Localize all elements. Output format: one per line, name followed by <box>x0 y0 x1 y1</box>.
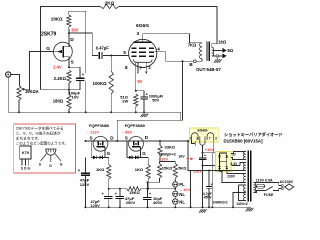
svg-text:1KΩ: 1KΩ <box>96 167 105 172</box>
svg-text:200V: 200V <box>126 200 136 205</box>
wire source-drain rail <box>85 140 160 142</box>
ground PT <box>246 208 249 211</box>
svg-text:1N4003×2: 1N4003×2 <box>213 200 228 204</box>
svg-text:NL: NL <box>179 192 185 197</box>
svg-text:10V: 10V <box>72 95 79 100</box>
svg-text:FQPF3N80: FQPF3N80 <box>125 123 146 128</box>
fuse <box>253 182 278 184</box>
svg-text:2.4KΩ: 2.4KΩ <box>54 76 67 81</box>
svg-text:8Ω: 8Ω <box>227 48 233 53</box>
svg-text:140V×2: 140V×2 <box>236 202 248 206</box>
heater wiring highlight box 6G6G <box>190 128 219 142</box>
wire drain <box>68 33 70 42</box>
capacitor 47uF 125V left <box>84 158 86 173</box>
lamp NL 2 <box>173 199 178 204</box>
svg-text:16Ω: 16Ω <box>218 39 227 44</box>
ground OPT <box>216 57 218 59</box>
resistor 2.4K ohm <box>67 70 71 83</box>
capacitor 10uF 400V <box>147 182 149 197</box>
pot wiper arrow <box>23 88 29 91</box>
svg-text:50V: 50V <box>152 98 159 103</box>
svg-text:2SK79のデータを調べてみる: 2SK79のデータを調べてみる <box>16 125 64 130</box>
tube 6G6G <box>129 39 157 67</box>
svg-text:16V: 16V <box>178 155 185 159</box>
transformer PT winding 5V <box>243 152 245 160</box>
wire gate Q1 <box>104 147 106 158</box>
wire feedback to source junction <box>41 89 69 91</box>
svg-text:←98V: ←98V <box>121 129 132 134</box>
wire decoupling rail <box>85 14 87 73</box>
wire bridge minus to ground <box>211 153 213 208</box>
svg-text:0.47μF: 0.47μF <box>96 45 109 50</box>
annotation TO-92 package K79 <box>20 146 31 159</box>
potentiometer VR 10K-A <box>17 85 21 100</box>
svg-text:2: 2 <box>196 137 198 141</box>
svg-text:125V: 125V <box>80 182 90 187</box>
red arrow to caps <box>186 158 191 160</box>
transformer OPT core <box>206 42 208 62</box>
svg-text:1KΩ: 1KΩ <box>135 167 144 172</box>
resistor 15K horizontal <box>127 187 142 191</box>
bridge rectifier D15XB60 yellow box <box>216 152 232 172</box>
svg-text:15KΩ: 15KΩ <box>129 190 140 195</box>
diodes gate protection Q2 <box>126 141 128 157</box>
speaker tap 0 ohm <box>212 55 223 57</box>
transformer PT winding 6.3V <box>243 163 245 171</box>
wire heater legs <box>192 140 196 144</box>
input jack <box>6 72 11 77</box>
svg-text:20KΩ: 20KΩ <box>51 17 63 22</box>
svg-text:15KΩ: 15KΩ <box>162 165 173 170</box>
svg-text:30V: 30V <box>71 27 79 32</box>
resistor 100K ohm grid <box>110 56 112 72</box>
resistor 33K ohm <box>159 141 161 145</box>
ground amp <box>141 114 144 117</box>
svg-text:+: + <box>204 153 206 157</box>
svg-text:S: S <box>125 135 128 140</box>
svg-text:D: D <box>70 37 74 43</box>
svg-text:9V: 9V <box>137 79 142 84</box>
svg-text:このようなピン配置のようです。: このようなピン配置のようです。 <box>16 140 68 145</box>
wire bottom ground bus <box>85 206 250 208</box>
svg-text:+10V: +10V <box>205 148 214 152</box>
svg-text:AC100V: AC100V <box>280 180 294 184</box>
svg-text:5KΩ: 5KΩ <box>178 165 187 170</box>
wire feedback to 16ohm tap <box>119 6 217 43</box>
wire ground bus <box>8 112 181 120</box>
svg-text:7KΩ: 7KΩ <box>188 43 197 48</box>
svg-text:S: S <box>90 135 93 140</box>
wire heater chain to ground <box>202 166 204 208</box>
wire feedback top <box>41 6 100 89</box>
svg-text:NL: NL <box>179 200 185 205</box>
resistor 51 ohm 2W <box>134 94 138 107</box>
capacitor 1000uF 50V cathode bypass <box>136 91 144 97</box>
wire 15K bottom link <box>148 178 160 182</box>
wire gate Q2 <box>140 147 142 158</box>
lamp PL <box>173 182 178 187</box>
ground PSU <box>199 209 202 212</box>
svg-text:10KΩA: 10KΩA <box>25 89 39 94</box>
svg-text:1000μF×2: 1000μF×2 <box>159 153 176 157</box>
transformer PT primary 110V <box>253 183 255 193</box>
wire jack to pot <box>11 75 20 86</box>
svg-text:7: 7 <box>209 137 211 141</box>
svg-text:8: 8 <box>125 65 128 70</box>
svg-text:S: S <box>39 163 41 167</box>
svg-text:2SK79: 2SK79 <box>41 31 57 37</box>
svg-text:33KΩ: 33KΩ <box>165 145 176 150</box>
transistor 2SK79 JFET <box>54 42 73 61</box>
svg-text:FQPF3N80: FQPF3N80 <box>89 123 110 128</box>
svg-text:K79: K79 <box>22 151 29 155</box>
svg-text:180Ω: 180Ω <box>53 98 64 103</box>
svg-text:2: 2 <box>215 137 217 141</box>
svg-text:2W: 2W <box>122 99 128 104</box>
node B <box>193 60 196 63</box>
heater pin stubs <box>137 62 139 71</box>
svg-text:FUSE: FUSE <box>264 193 274 197</box>
node +10V divider <box>160 161 176 163</box>
svg-text:OUT-54B-57: OUT-54B-57 <box>196 67 221 72</box>
svg-text:と、S、D、G端子の記述が: と、S、D、G端子の記述が <box>16 130 61 135</box>
capacitor 47uF 125V bottom <box>108 189 110 196</box>
wire rail lower <box>85 81 87 112</box>
svg-text:5: 5 <box>123 50 126 55</box>
svg-text:230V: 230V <box>227 175 236 179</box>
resistor 20K ohm <box>68 27 70 33</box>
node drain 30V <box>68 32 70 34</box>
svg-text:G: G <box>46 46 50 52</box>
svg-text:S: S <box>21 166 23 170</box>
wire drain to coupling cap <box>69 33 98 56</box>
wire wiper to gate <box>30 52 54 91</box>
svg-text:450V: 450V <box>204 196 213 200</box>
svg-text:110V 0.5A: 110V 0.5A <box>256 178 273 182</box>
wire source <box>68 61 70 67</box>
switch + wire primary bottom <box>253 190 266 192</box>
wire raw DC <box>188 141 216 171</box>
resistor 2K ohm feedback <box>100 4 119 8</box>
resistor 1K gate Q1 <box>108 157 110 164</box>
svg-text:400V: 400V <box>153 200 163 205</box>
svg-text:2KΩ: 2KΩ <box>105 1 115 6</box>
resistor 1K gate Q2 <box>147 157 149 164</box>
svg-text:6.3V: 6.3V <box>231 162 239 166</box>
svg-text:まちまちです。: まちまちです。 <box>16 135 41 140</box>
annotation red box 2SK79 pinout <box>14 124 76 173</box>
transformer PT winding 140Vx2 <box>244 185 246 201</box>
resistor 15K divider <box>159 162 161 164</box>
wire cathode <box>135 62 137 90</box>
svg-text:G: G <box>142 151 146 156</box>
wire jack ground stem <box>7 77 9 112</box>
diodes gate protection Q1 <box>90 141 92 157</box>
svg-text:6G6G: 6G6G <box>136 23 149 29</box>
svg-text:2.4V: 2.4V <box>53 65 62 70</box>
svg-text:D15XB60 [60V15A]: D15XB60 [60V15A] <box>224 139 264 144</box>
wire screen grid pin4 <box>155 52 166 62</box>
svg-text:3: 3 <box>137 31 140 36</box>
speaker tap 8 ohm <box>214 49 223 51</box>
capacitor 0.47uF <box>98 52 100 59</box>
wire B+ feed <box>117 61 182 141</box>
transformer PT core <box>247 151 249 202</box>
resistor 5K divider <box>174 162 176 164</box>
svg-text:PL: PL <box>179 182 185 187</box>
capacitor 47uF 200V <box>119 189 121 196</box>
resistor 180 ohm <box>67 95 71 110</box>
svg-text:←10V: ←10V <box>158 158 169 162</box>
svg-text:ショットキーバリアダイオード: ショットキーバリアダイオード <box>224 131 283 138</box>
capacitor 4.7uF 450V <box>208 171 210 208</box>
svg-text:G: G <box>107 151 111 156</box>
svg-text:4: 4 <box>157 47 160 52</box>
annotation pin view bowl <box>46 149 56 155</box>
lamp NL 1 <box>173 191 178 196</box>
svg-text:6G6G: 6G6G <box>198 128 208 132</box>
wire D right mosfet raw <box>160 140 195 142</box>
transformer PT winding 230V <box>244 174 246 183</box>
capacitor 100uF 10V bypass <box>69 67 80 78</box>
wire plate to OPT <box>143 34 202 43</box>
svg-text:100KΩ: 100KΩ <box>93 81 107 86</box>
capacitor heater 1000uF x2 <box>201 145 203 153</box>
transformer OPT secondary <box>212 47 214 55</box>
wire gate bias row <box>109 188 127 190</box>
svg-text:←111V: ←111V <box>86 129 99 134</box>
